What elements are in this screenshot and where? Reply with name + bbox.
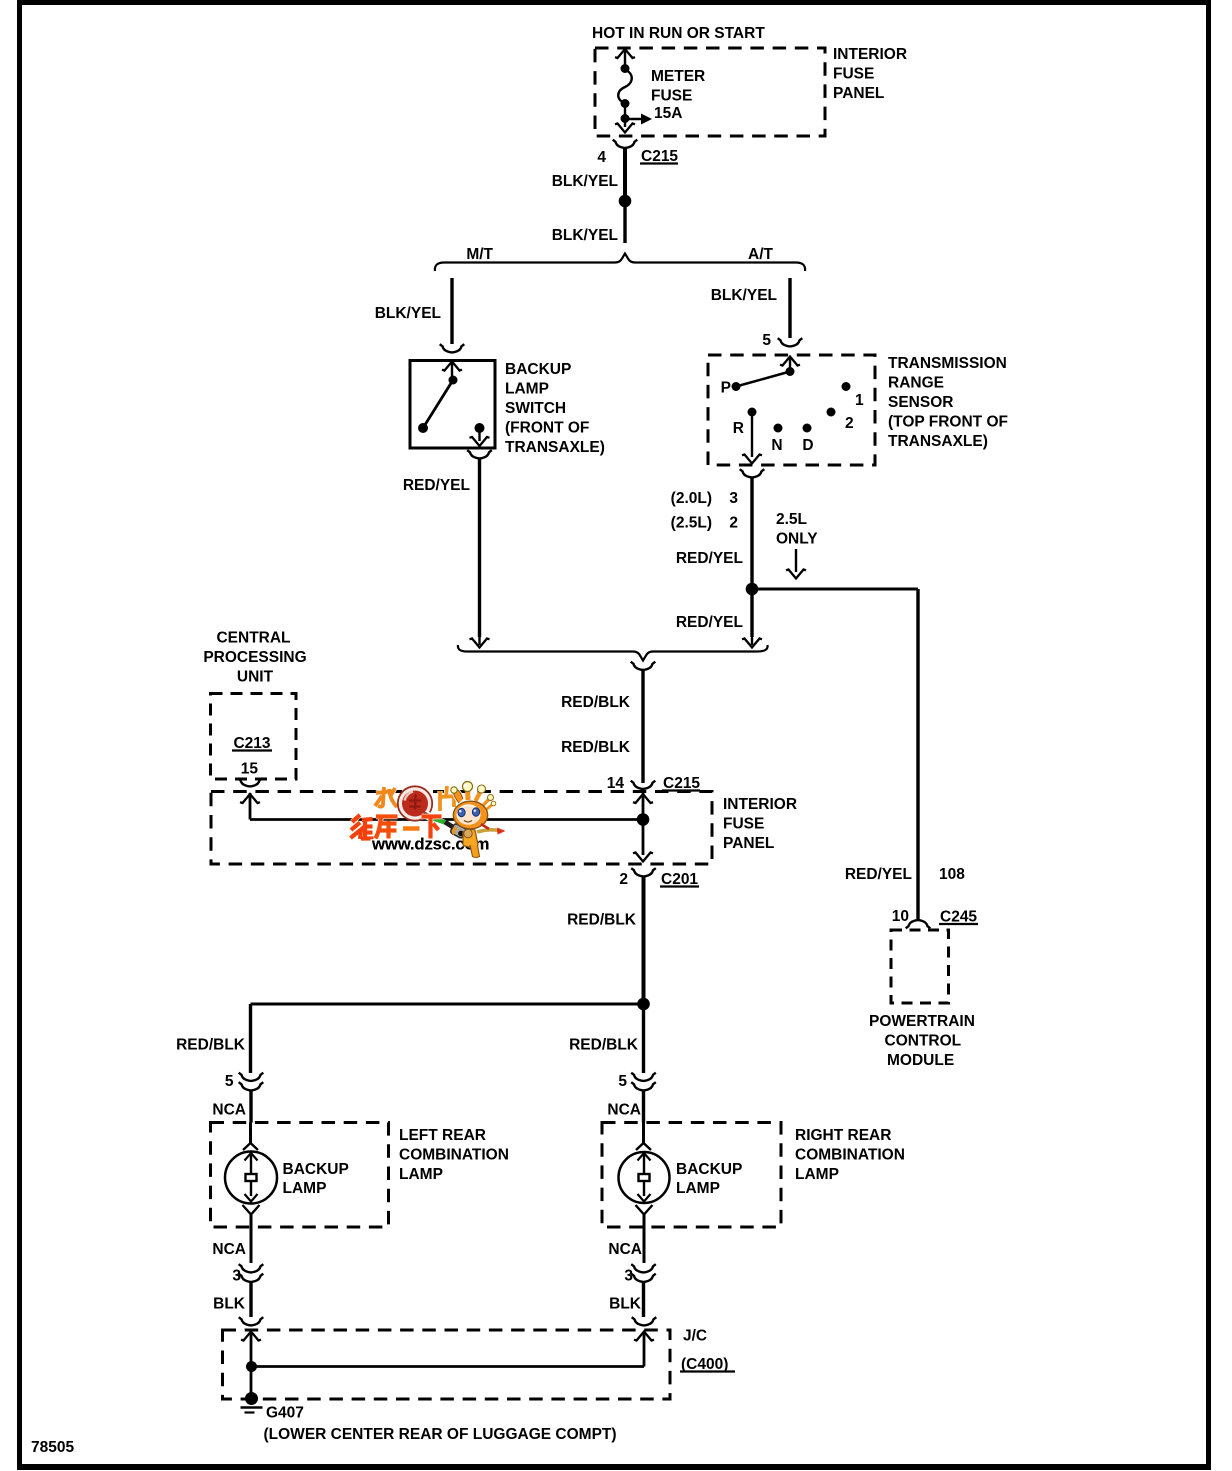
svg-text:RED/BLK: RED/BLK [561,739,631,756]
svg-text:PANEL: PANEL [723,835,774,852]
svg-text:15: 15 [241,761,259,778]
svg-text:3: 3 [624,1268,633,1285]
svg-text:NCA: NCA [607,1102,641,1119]
wire M/T branch BLK/YEL [375,278,465,352]
svg-text:2: 2 [845,415,854,432]
svg-text:BLK/YEL: BLK/YEL [552,173,618,190]
svg-text:(LOWER CENTER REAR OF LUGGAGE: (LOWER CENTER REAR OF LUGGAGE COMPT) [264,1426,617,1443]
label CENTRAL PROCESSING UNIT [203,630,306,686]
interior fuse panel (top) dashed box [595,48,825,136]
svg-text:INTERIOR: INTERIOR [833,46,907,63]
junction node [619,195,632,208]
label LEFT REAR COMBINATION LAMP [399,1127,509,1183]
svg-text:NCA: NCA [608,1241,642,1258]
svg-text:CONTROL: CONTROL [885,1033,962,1050]
connector pin 5 TRS [762,332,802,349]
watermark magnifier [398,786,432,820]
svg-text:UNIT: UNIT [237,669,274,686]
wire to PCM (vertical) [916,589,919,919]
J/C entry cups [239,1317,657,1325]
svg-text:14: 14 [607,775,625,792]
svg-text:PROCESSING: PROCESSING [203,649,306,666]
label BACKUP LAMP SWITCH [505,361,605,456]
watermark char 片 [440,786,457,811]
connector below switch [467,450,492,458]
label RIGHT REAR COMBINATION LAMP [795,1127,905,1183]
fuse panel internal wiring [240,793,653,862]
watermark char 片 white halo [440,786,457,811]
svg-text:FUSE: FUSE [723,816,764,833]
connector pin 5 left [212,1073,263,1123]
wire BLK/YEL from C215 [552,149,625,196]
connector C245 pin 10 [892,908,978,928]
svg-text:TRANSAXLE): TRANSAXLE) [505,439,605,456]
svg-text:POWERTRAIN: POWERTRAIN [869,1013,975,1030]
svg-text:78505: 78505 [31,1439,74,1456]
svg-text:FUSE: FUSE [651,88,692,105]
wire RED/BLK left lamp [176,1004,250,1073]
labels (2.0L) 3 (2.5L) 2 [671,490,739,532]
svg-text:MODULE: MODULE [887,1052,954,1069]
watermark dzsc logo [351,782,506,858]
svg-text:ONLY: ONLY [776,531,818,548]
connector C215 pin 14 [607,775,701,792]
svg-text:A/T: A/T [748,246,774,263]
label BACKUP LAMP right [676,1161,742,1197]
wire BLK/YEL to split [552,201,625,244]
svg-text:1: 1 [855,392,864,409]
connector pin 3 right [608,1241,655,1317]
watermark club shaft [424,814,467,839]
watermark char 下 [422,817,442,839]
svg-text:NCA: NCA [212,1241,246,1258]
svg-text:RANGE: RANGE [888,375,944,392]
J/C internal wiring [241,1332,654,1397]
label 2.5L ONLY with arrow [776,511,818,579]
svg-text:FUSE: FUSE [833,66,874,83]
svg-text:COMBINATION: COMBINATION [795,1147,905,1164]
backup lamp bulb left [225,1123,277,1264]
connector pin 5 right [607,1073,655,1123]
label RED/YEL 108 [845,866,965,883]
connector C201 pin 2 [619,868,699,888]
watermark char 一 [403,826,420,832]
interior fuse panel (mid) dashed box [211,792,712,865]
left rear combination lamp dashed box [211,1123,389,1228]
svg-text:SENSOR: SENSOR [888,394,953,411]
TRS internals [721,357,864,464]
svg-text:BLK/YEL: BLK/YEL [552,227,618,244]
svg-text:TRANSMISSION: TRANSMISSION [888,355,1007,372]
svg-text:LAMP: LAMP [505,381,549,398]
svg-text:COMBINATION: COMBINATION [399,1147,509,1164]
watermark char 我 [375,787,397,807]
svg-text:2: 2 [619,871,628,888]
connector below TRS [740,469,765,477]
svg-text:J/C: J/C [683,1328,707,1345]
wire A/T branch BLK/YEL [711,278,790,338]
transmission range sensor dashed box [708,355,875,465]
label METER FUSE 15A [651,68,705,122]
powertrain control module dashed box [891,930,949,1003]
label J/C (C400) [680,1328,735,1374]
backup lamp switch box [410,361,495,449]
watermark mascot [451,782,506,858]
wire RED/YEL right branch lower [676,589,762,648]
svg-text:5: 5 [762,332,771,349]
svg-text:BLK/YEL: BLK/YEL [711,287,777,304]
right rear combination lamp dashed box [602,1123,781,1228]
fuse F1 METER FUSE 15A [615,49,652,133]
svg-text:3: 3 [729,490,738,507]
connector pin 3 left [212,1241,263,1317]
ground G407 [241,1392,304,1422]
merge brace [458,645,768,670]
svg-text:2.5L: 2.5L [776,511,807,528]
backup lamp bulb right [619,1123,670,1264]
svg-text:D: D [802,437,813,454]
watermark char 我 white halo [375,787,397,807]
svg-text:RED/YEL: RED/YEL [845,866,912,883]
svg-text:RED/YEL: RED/YEL [403,477,470,494]
svg-text:SWITCH: SWITCH [505,400,566,417]
label HOT IN RUN OR START [592,25,765,42]
svg-text:LAMP: LAMP [795,1166,839,1183]
junction node 2.5L tap [746,583,759,596]
svg-text:NCA: NCA [212,1102,246,1119]
svg-text:G407: G407 [266,1405,304,1422]
wire RED/BLK right lamp [569,1004,643,1073]
svg-text:15A: 15A [654,105,682,122]
svg-text:BACKUP: BACKUP [283,1161,349,1178]
svg-text:RED/BLK: RED/BLK [567,912,637,929]
connector C213 pin 15 [232,735,272,786]
svg-text:LAMP: LAMP [676,1180,720,1197]
svg-text:RED/BLK: RED/BLK [561,694,631,711]
svg-text:BLK: BLK [213,1296,246,1313]
wire RED/BLK to C215 [561,671,643,784]
label INTERIOR FUSE PANEL (mid) [723,796,797,852]
label TRANSMISSION RANGE SENSOR [888,355,1008,450]
label ground location [264,1426,617,1443]
label BACKUP LAMP left [283,1161,349,1197]
wire RED/YEL left branch [403,459,490,648]
wire RED/BLK below C201 [567,877,643,1004]
svg-text:RED/YEL: RED/YEL [676,550,743,567]
svg-text:10: 10 [892,908,909,925]
svg-text:CENTRAL: CENTRAL [216,630,290,647]
svg-text:(2.0L): (2.0L) [671,490,712,507]
svg-text:N: N [771,437,782,454]
svg-text:P: P [721,380,731,397]
svg-text:LAMP: LAMP [399,1166,443,1183]
watermark chars 维库 white halo [351,815,398,839]
svg-text:INTERIOR: INTERIOR [723,796,797,813]
svg-text:2: 2 [729,515,738,532]
svg-text:5: 5 [225,1073,234,1090]
label POWERTRAIN CONTROL MODULE [869,1013,975,1069]
label INTERIOR FUSE PANEL (top) [833,46,907,102]
svg-text:BACKUP: BACKUP [505,361,571,378]
svg-text:RED/BLK: RED/BLK [176,1037,246,1054]
watermark chars 维库 [351,815,374,839]
split brace M/T A/T [435,246,805,271]
svg-text:(FRONT OF: (FRONT OF [505,420,589,437]
junction block J/C C400 dashed box [223,1330,671,1399]
svg-text:LEFT REAR: LEFT REAR [399,1127,486,1144]
wire to left lamp [251,1003,644,1006]
svg-text:M/T: M/T [466,246,493,263]
wire RED/YEL right branch upper [676,478,752,583]
svg-text:(TOP FRONT OF: (TOP FRONT OF [888,414,1008,431]
svg-text:LAMP: LAMP [283,1180,327,1197]
svg-text:BLK: BLK [609,1296,642,1313]
svg-text:108: 108 [939,866,965,883]
svg-text:RED/YEL: RED/YEL [676,614,743,631]
junction node lamp feed [637,998,650,1011]
svg-text:(2.5L): (2.5L) [671,515,712,532]
label 78505 [31,1439,74,1456]
svg-text:4: 4 [597,149,606,166]
svg-text:BACKUP: BACKUP [676,1161,742,1178]
svg-text:TRANSAXLE): TRANSAXLE) [888,433,988,450]
wire to PCM (horizontal) [752,588,918,591]
svg-text:METER: METER [651,68,705,85]
connector C215 pin 4 [597,140,678,166]
svg-text:PANEL: PANEL [833,85,884,102]
svg-text:R: R [733,420,744,437]
svg-text:5: 5 [618,1073,627,1090]
CPU dashed box [211,694,297,780]
svg-text:RED/BLK: RED/BLK [569,1037,639,1054]
svg-text:HOT IN RUN OR START: HOT IN RUN OR START [592,25,765,42]
svg-text:RIGHT REAR: RIGHT REAR [795,1127,891,1144]
svg-text:BLK/YEL: BLK/YEL [375,305,441,322]
